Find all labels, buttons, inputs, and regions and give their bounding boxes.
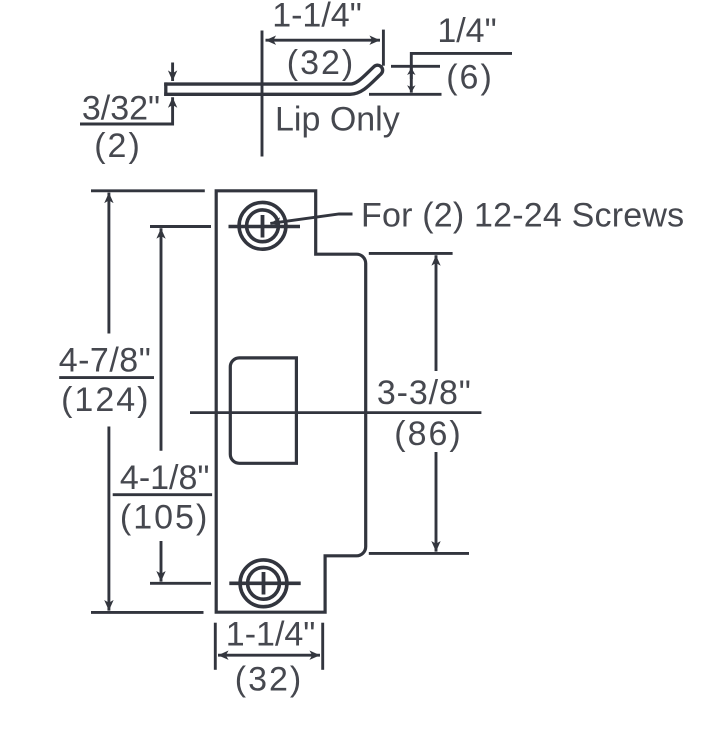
svg-text:(124): (124) bbox=[61, 381, 150, 419]
top tick for overall height dim bbox=[91, 189, 205, 192]
right tick for 1-1/4 top dimension bbox=[382, 30, 385, 66]
lower extension line for 3-3/8 dim bbox=[369, 552, 469, 555]
leader for 3/32 thickness with up arrow bbox=[80, 97, 173, 124]
top screw tick for 4-1/8 dim bbox=[150, 225, 211, 228]
leader underline for 1/4 dim bbox=[411, 53, 512, 92]
fraction bar for 4-1/8 bbox=[113, 493, 212, 496]
bottom screw hole inner circle bbox=[248, 567, 280, 599]
left tick for bottom width dim bbox=[214, 623, 217, 670]
latch bolt opening bbox=[230, 358, 296, 463]
side view plate with lip bbox=[146, 70, 378, 104]
top screw hole outer circle bbox=[239, 202, 286, 249]
dimension line 4-7/8 lower segment bbox=[107, 427, 110, 611]
svg-text:3/32": 3/32" bbox=[82, 90, 160, 128]
svg-text:(86): (86) bbox=[394, 415, 462, 453]
svg-text:3-3/8": 3-3/8" bbox=[377, 374, 472, 412]
dimension line 4-1/8 upper segment bbox=[160, 228, 163, 451]
strike plate outline front view bbox=[216, 191, 366, 612]
dimension line 4-1/8 lower segment bbox=[160, 541, 163, 582]
bottom tick for overall height dim bbox=[91, 611, 204, 614]
small up arrow of 1/4 dim bbox=[410, 68, 413, 79]
svg-text:4-7/8": 4-7/8" bbox=[59, 341, 152, 379]
svg-text:4-1/8": 4-1/8" bbox=[120, 459, 210, 497]
horizontal centerline through plate bbox=[190, 411, 481, 414]
right tick for bottom width dim bbox=[321, 623, 324, 670]
svg-text:For (2) 12-24 Screws: For (2) 12-24 Screws bbox=[361, 196, 684, 234]
dimension line 1-1/4 top with arrows bbox=[266, 39, 381, 42]
svg-text:(2): (2) bbox=[94, 127, 142, 165]
dimension line 3-3/8 lower segment bbox=[435, 452, 438, 552]
leader line to screws note bbox=[270, 214, 352, 223]
svg-text:(32): (32) bbox=[287, 44, 355, 82]
svg-text:(32): (32) bbox=[235, 661, 303, 699]
dimension line 1-1/4 bottom bbox=[218, 654, 320, 657]
svg-text:1/4": 1/4" bbox=[437, 12, 496, 50]
vertical extension line at lip bend bbox=[261, 31, 264, 157]
dimension line 4-7/8 upper segment bbox=[107, 193, 110, 334]
bottom screw tick for 4-1/8 dim bbox=[150, 582, 211, 585]
bottom screw centerline vertical bbox=[262, 572, 266, 595]
top screw hole inner circle bbox=[247, 210, 279, 242]
bottom screw hole outer circle bbox=[240, 560, 287, 607]
top screw centerline horizontal bbox=[229, 225, 301, 229]
down arrow above plate for 3/32 bbox=[171, 63, 174, 82]
top extension line at lip tip bbox=[391, 65, 440, 68]
svg-text:(6): (6) bbox=[446, 59, 494, 97]
upper extension line for 3-3/8 dim bbox=[369, 252, 453, 255]
svg-text:Lip Only: Lip Only bbox=[275, 101, 400, 139]
fraction bar for 4-7/8 bbox=[59, 376, 154, 379]
dimension line 3-3/8 upper segment bbox=[435, 255, 438, 371]
bottom extension line under lip bbox=[369, 93, 442, 96]
svg-text:1-1/4": 1-1/4" bbox=[226, 616, 316, 654]
svg-text:1-1/4": 1-1/4" bbox=[272, 0, 362, 35]
svg-text:(105): (105) bbox=[120, 499, 209, 537]
top screw centerline vertical bbox=[261, 215, 265, 238]
bottom screw centerline horizontal bbox=[229, 581, 300, 585]
